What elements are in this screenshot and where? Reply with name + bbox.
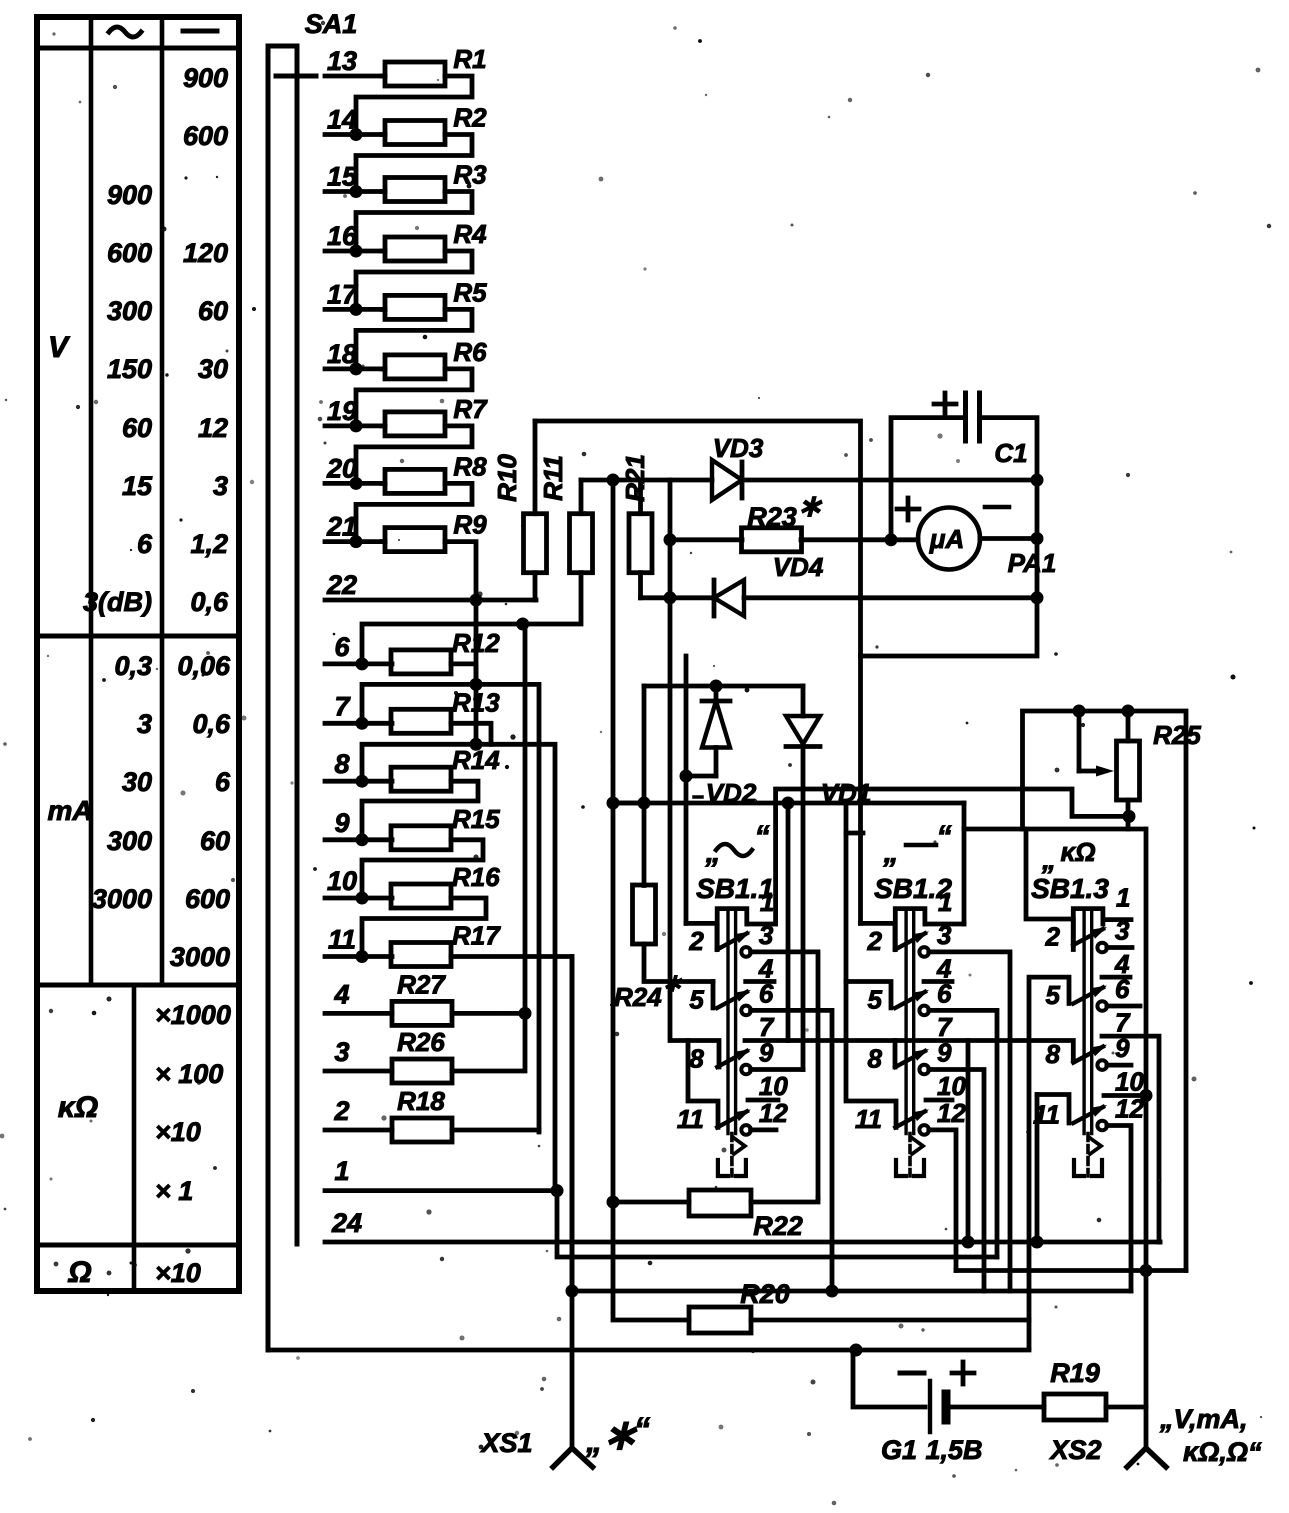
SB1.3 pin9 wire	[1107, 1063, 1131, 1068]
XS1 net label	[585, 1411, 650, 1459]
SA1 contact 11 label	[328, 925, 356, 955]
resistor R6 label	[453, 337, 487, 367]
SB1.1 pin10 bar	[748, 1098, 778, 1103]
R24 bottom wire	[644, 944, 713, 982]
battery G1 plus	[952, 1362, 974, 1384]
table V/mA section line	[37, 634, 239, 639]
SB1.3 button shaft	[1084, 909, 1092, 1134]
SB1.3 button cap	[1073, 909, 1103, 950]
SA1 contact 22 label	[326, 570, 357, 600]
table kOhm ×1000	[155, 1000, 231, 1030]
resistor R16 label	[452, 862, 500, 892]
SA1 contact 18 label	[327, 339, 357, 369]
node 14 wire	[325, 132, 385, 137]
battery G1 short plate	[942, 1394, 951, 1420]
capacitor C1 label	[994, 438, 1027, 468]
switch SB1.3 label	[1031, 873, 1109, 904]
resistor R3 label	[453, 160, 487, 190]
table mA DC 60	[200, 826, 230, 856]
node 21 wire	[325, 539, 385, 544]
resistor R13 label	[452, 687, 500, 717]
svg-text:8: 8	[868, 1044, 883, 1074]
svg-text:4: 4	[758, 953, 774, 983]
SB1.3 pin7 bar	[1102, 1036, 1159, 1242]
R25 top lead	[1126, 711, 1131, 741]
junction R13-return/net22	[470, 738, 483, 751]
SB1.2 pin1 bar	[925, 922, 964, 927]
SB1.2 pin5 branch	[846, 982, 891, 1008]
resistor R10 label	[492, 454, 522, 502]
svg-text:1,2: 1,2	[190, 529, 228, 559]
SB1.1 pin 9 label	[759, 1038, 774, 1068]
SB1.1 pin 12 break circle	[741, 1125, 751, 1135]
SB1.1 button shaft	[728, 909, 736, 1134]
svg-text:2: 2	[867, 926, 883, 956]
svg-text:R23: R23	[747, 502, 797, 532]
potentiometer R25 wiper	[1079, 711, 1114, 777]
resistor R12	[391, 650, 451, 674]
node 3 wire	[325, 1069, 392, 1074]
R11 top lead	[579, 480, 584, 514]
table V AC 600	[107, 238, 152, 268]
svg-text:600: 600	[183, 121, 228, 151]
junction VD4/right	[1031, 591, 1044, 604]
svg-text:300: 300	[107, 296, 152, 326]
svg-text:R17: R17	[452, 921, 501, 951]
SB1.3 pin 3 break circle	[1097, 943, 1107, 953]
R7 left lead	[382, 423, 385, 428]
node 9 junction	[356, 833, 369, 846]
node 11 wire	[325, 954, 392, 959]
SA1 contact 8 label	[334, 749, 349, 779]
SB1.2 pin 4 label	[936, 953, 952, 983]
table outer frame	[37, 17, 239, 1291]
resistor R10	[524, 514, 547, 573]
SB1.3 pin6 wire	[1107, 1004, 1140, 1009]
R19 right wire	[1106, 1405, 1146, 1410]
SB1.2 pin 10 label	[937, 1071, 966, 1101]
table mA AC 30	[122, 767, 152, 797]
label Ohm	[67, 1256, 91, 1289]
connector XS2 label	[1048, 1435, 1101, 1465]
junction R25-bottom	[1123, 810, 1136, 823]
SB1.1 pin6 wire	[751, 1010, 832, 1291]
junction net-R11 start	[607, 797, 620, 810]
svg-text:VD3: VD3	[713, 433, 764, 463]
table V DC 60	[198, 296, 228, 326]
svg-text:120: 120	[183, 238, 228, 268]
table mA/kOhm section line	[37, 983, 239, 988]
svg-text:G1: G1	[881, 1435, 917, 1465]
SB1.3 pin 6 label	[1115, 974, 1130, 1004]
SB1.1 pin 6 label	[759, 978, 774, 1008]
SA1 left bar	[268, 46, 297, 1350]
resistor R1	[385, 62, 445, 86]
svg-text:1: 1	[760, 887, 774, 917]
svg-text:7: 7	[759, 1012, 775, 1042]
node 8 wire	[325, 779, 392, 784]
SB1.2 pin 8 label	[868, 1044, 883, 1074]
table V AC 300	[107, 296, 152, 326]
SA1 contact 19 label	[327, 396, 357, 426]
label mA	[47, 795, 92, 826]
resistor R22	[689, 1190, 751, 1216]
capacitor C1 right wire	[861, 418, 1038, 656]
svg-text:R10: R10	[492, 454, 522, 502]
svg-text:150: 150	[107, 354, 152, 384]
SB1.2 contact 8-9 moving arm	[895, 1049, 929, 1067]
SA1 contact 21 label	[326, 512, 357, 542]
resistor R17	[391, 943, 451, 967]
svg-text:3: 3	[334, 1037, 349, 1067]
wire1 vertical	[557, 1191, 997, 1257]
svg-text:R16: R16	[452, 862, 500, 892]
SB1.3 pin 3 label	[1115, 916, 1130, 946]
meter PA1	[918, 508, 980, 570]
node 16 wire	[325, 249, 385, 254]
R7 return wire	[356, 426, 472, 484]
svg-text:22: 22	[326, 570, 357, 600]
node 17 junction	[350, 303, 363, 316]
table header row line	[37, 46, 239, 51]
svg-text:6: 6	[215, 767, 231, 797]
SB1.2 pin 11 label	[855, 1104, 882, 1134]
node 14 junction	[350, 128, 363, 141]
node 18 wire	[325, 366, 385, 371]
SB1.2 contact 2-3 moving arm	[895, 931, 929, 949]
SB1.1 pin 2 label	[688, 926, 704, 956]
SB1.3 pin4 bar	[1102, 975, 1130, 980]
diode VD4 label	[773, 552, 824, 582]
SB1.2 pin 6 break circle	[919, 1006, 929, 1016]
table kOhm ×10	[155, 1117, 201, 1147]
svg-text:0,06: 0,06	[177, 651, 231, 681]
table Ohm x10	[155, 1258, 201, 1288]
SB1.1 pin12 wire	[751, 1128, 776, 1133]
svg-text:R2: R2	[453, 103, 487, 133]
SA1 contact 17 label	[327, 279, 359, 309]
R26 output wire	[452, 624, 525, 1071]
SB1.3 pin1 bar	[1103, 917, 1131, 922]
R9 return wire	[445, 542, 476, 600]
table mA DC 6	[215, 767, 231, 797]
switch SA1 label	[305, 9, 358, 39]
svg-text:300: 300	[107, 826, 152, 856]
SB1.2 pin9 wire	[929, 1070, 984, 1292]
table V DC 0,6	[190, 587, 229, 617]
SB1.3 contact 5-6 moving arm	[1073, 986, 1107, 1004]
SA1 contact 1 label	[334, 1156, 349, 1186]
capacitor C1 left wire	[891, 418, 966, 540]
SB1.2 pin1 wire up	[962, 803, 967, 924]
resistor R21	[629, 514, 652, 573]
R11 bottom lead	[523, 573, 581, 624]
junction 22/R9	[470, 594, 483, 607]
battery G1 feed	[853, 1350, 925, 1407]
svg-text:0,3: 0,3	[114, 651, 152, 681]
node 10 junction	[356, 892, 369, 905]
SA1 contact 7 label	[334, 691, 351, 721]
SB1.1 pin8 ledge	[670, 600, 719, 1068]
junction rail/G1	[850, 1344, 863, 1357]
table mA DC 600	[185, 884, 230, 914]
svg-text:R8: R8	[453, 451, 487, 481]
SB1.3 pin2 ledge	[1026, 829, 1073, 945]
svg-text:5: 5	[689, 984, 704, 1014]
R18 output wire	[452, 1128, 539, 1133]
SB1.1 pin 11 label	[677, 1104, 704, 1134]
SB1.3 pin 12 break circle	[1097, 1121, 1107, 1131]
SB1.3 pin 9 break circle	[1097, 1060, 1107, 1070]
node 8 junction	[356, 775, 369, 788]
VD2 bottom wire	[686, 774, 716, 779]
SB1.3 pin 4 label	[1114, 949, 1130, 979]
SB1.3 pin12 wire	[1107, 1126, 1131, 1292]
svg-text:κΩ: κΩ	[58, 1091, 98, 1124]
SB1.1 pin 4 label	[758, 953, 774, 983]
svg-text:60: 60	[198, 296, 228, 326]
SB1.2 latch actuator	[896, 1134, 924, 1177]
SB1.2 label quote-minus	[883, 820, 952, 869]
svg-text:2: 2	[1045, 922, 1061, 952]
resistor R26 label	[397, 1027, 445, 1057]
resistor R17 label	[452, 921, 501, 951]
resistor R25	[1117, 741, 1140, 800]
table column divider 2	[160, 17, 165, 985]
node 20 wire	[325, 481, 385, 486]
SB1.3 pin 12 label	[1115, 1094, 1144, 1124]
svg-text:10: 10	[937, 1071, 966, 1101]
svg-text:R25: R25	[1153, 720, 1201, 750]
node 15 wire	[325, 189, 385, 194]
R21 top lead	[638, 480, 643, 514]
SB1.1 pin 8 label	[689, 1044, 704, 1074]
R3 return wire	[356, 192, 472, 252]
XS2 net label	[1159, 1404, 1262, 1467]
wire D	[956, 1268, 1186, 1273]
svg-text:„: „	[705, 836, 721, 869]
resistor R24	[633, 885, 656, 944]
SB1.2 button cap	[895, 909, 925, 950]
resistor R4 label	[453, 219, 487, 249]
resistor R8	[385, 469, 445, 493]
svg-text:3: 3	[137, 709, 152, 739]
SB1.2 pin 3 break circle	[919, 947, 929, 957]
SB1.2 pin8 post	[893, 1041, 898, 1068]
svg-text:„: „	[883, 836, 899, 869]
SB1.1 contact 2-3 moving arm	[717, 931, 751, 949]
node 19 junction	[350, 419, 363, 432]
capacitor C1	[966, 393, 980, 441]
table kOhm column divider	[132, 985, 137, 1291]
node 7 wire	[325, 721, 392, 726]
table mA AC 3000	[92, 884, 152, 914]
junction pin11/wire24	[1031, 1236, 1044, 1249]
table kOhm/Ohm section line	[37, 1243, 239, 1248]
SB1.3 latch actuator	[1074, 1134, 1102, 1177]
svg-text:XS2: XS2	[1048, 1435, 1101, 1465]
R12 return wire	[362, 664, 476, 723]
resistor R18	[392, 1118, 452, 1142]
node 24 wire	[325, 1240, 1160, 1245]
R27 output wire	[452, 1011, 525, 1016]
svg-text:R20: R20	[740, 1279, 790, 1309]
SA1 contact 16 label	[327, 221, 358, 251]
long pin7 wire	[788, 1041, 1073, 1061]
PA1 right wire	[980, 536, 1037, 541]
svg-text:1: 1	[938, 887, 952, 917]
SB1.2 pin 2 label	[867, 926, 883, 956]
node 16 junction	[350, 245, 363, 258]
svg-text:30: 30	[198, 354, 228, 384]
SB1.1 pin 12 label	[759, 1098, 788, 1128]
SB1.3 label quote-kOhm	[1041, 837, 1096, 875]
svg-text:5: 5	[1046, 980, 1061, 1010]
junction PA1/right	[1031, 532, 1044, 545]
R5 left lead	[382, 307, 385, 312]
svg-text:60: 60	[122, 413, 152, 443]
svg-text:6: 6	[137, 529, 153, 559]
junction VD2 top	[710, 680, 723, 693]
net R11-top vertical	[611, 480, 616, 1201]
resistor R20	[689, 1307, 751, 1333]
SA1 contact 6 label	[334, 632, 350, 662]
svg-text:R9: R9	[453, 510, 487, 540]
diode VD2 label	[694, 778, 757, 808]
resistor R8 label	[453, 451, 487, 481]
node 15 junction	[350, 185, 363, 198]
svg-text:600: 600	[185, 884, 230, 914]
junction VD2 bottom	[680, 770, 693, 783]
resistor R9	[385, 528, 445, 552]
R2 return wire	[356, 135, 472, 192]
diode VD3 label	[713, 433, 764, 463]
wire 6 to R11 bottom	[362, 624, 523, 664]
node 7 junction	[356, 717, 369, 730]
SB1.3 pin 2 label	[1045, 922, 1061, 952]
table V DC 1,2	[190, 529, 228, 559]
R22 left wire	[613, 1200, 689, 1205]
SA1 contact 2 label	[333, 1096, 349, 1126]
svg-text:R18: R18	[397, 1086, 445, 1116]
SA1 wiper tick	[276, 74, 316, 79]
SB1.1 pin 9 break circle	[741, 1065, 751, 1075]
node 22 wire	[325, 598, 536, 603]
svg-text:2: 2	[333, 1096, 349, 1126]
node 17 wire	[325, 307, 385, 312]
SB1.2 pin3 wire	[929, 952, 1010, 1291]
diode VD1	[786, 686, 820, 1070]
svg-text:×10: ×10	[155, 1117, 201, 1147]
bridge top wire	[581, 478, 712, 483]
VD2/VD1 top wire	[644, 684, 803, 689]
R22 right wire	[751, 1198, 818, 1202]
SB1.1 pin3 wire	[751, 952, 818, 1198]
SB1.3 contact 8-9 moving arm	[1073, 1045, 1107, 1063]
SB1.1 pin 5 label	[689, 984, 704, 1014]
svg-text:0,6: 0,6	[190, 587, 229, 617]
svg-text:4: 4	[1114, 949, 1130, 979]
SB1.2 pin 9 label	[937, 1038, 952, 1068]
R1 return wire	[356, 76, 472, 135]
table V DC 600	[183, 121, 228, 151]
svg-text:30: 30	[122, 767, 152, 797]
switch SB1.2 label	[874, 873, 952, 904]
junction R25-rail/wiper	[1073, 705, 1086, 718]
resistor R19 label	[1050, 1358, 1100, 1388]
svg-text:„: „	[1041, 844, 1056, 875]
node 2 wire	[325, 1128, 392, 1133]
SB1.1 contact 5-6 moving arm	[717, 990, 751, 1008]
node 6 wire	[325, 662, 392, 667]
bottom rail	[268, 1348, 1029, 1353]
svg-text:0,6: 0,6	[192, 709, 231, 739]
R16 return wire	[362, 898, 486, 957]
resistor R23	[742, 528, 802, 552]
SB1.1 pin2 ledge	[686, 923, 717, 949]
table header AC symbol	[109, 27, 141, 37]
SB1.3 pin 8 label	[1046, 1039, 1061, 1069]
junction XS1/wireC	[566, 1285, 579, 1298]
battery G1 label	[881, 1435, 983, 1465]
battery G1 long plate	[928, 1381, 932, 1432]
SA1 contact 24 label	[331, 1208, 362, 1238]
svg-text:3: 3	[213, 471, 228, 501]
VD3 output wire	[742, 478, 1037, 483]
junction R25-rail/top	[1122, 705, 1135, 718]
resistor R14 label	[452, 745, 500, 775]
SB1.3 pin 1 label	[1116, 883, 1130, 913]
SB1.2 pin7 branch	[966, 1041, 971, 1243]
node 19 wire	[325, 423, 385, 428]
table kOhm × 1	[155, 1176, 193, 1206]
R10 bottom lead	[533, 573, 538, 600]
meter PA1 uA text	[929, 524, 964, 554]
connector XS1 label	[479, 1428, 532, 1458]
resistor R22 label	[753, 1211, 803, 1241]
SB1.3 pin 7 label	[1115, 1008, 1131, 1038]
R24 top wire	[642, 686, 647, 886]
junction wireC/pin6-SB11	[826, 1285, 839, 1298]
resistor R12 label	[452, 628, 500, 658]
SB1.3 pin 5 label	[1046, 980, 1061, 1010]
svg-text:1: 1	[1116, 883, 1130, 913]
node 1 wire	[325, 1188, 557, 1193]
svg-text:6: 6	[334, 632, 350, 662]
R10 top lead	[533, 421, 538, 514]
junction R12-return/net22	[470, 678, 483, 691]
svg-text:5: 5	[868, 984, 883, 1014]
junction pin10/right-vert	[1140, 1089, 1153, 1102]
svg-text:×10: ×10	[155, 1258, 201, 1288]
SB1.2 contact 11-12 moving arm	[895, 1109, 929, 1127]
SB1.2 contact 5-6 moving arm	[895, 990, 929, 1008]
svg-text:15: 15	[122, 471, 153, 501]
R9 left lead	[382, 539, 385, 544]
SB1.3 right vertical	[1144, 829, 1149, 1271]
svg-text:“: “	[634, 1411, 650, 1447]
SB1.3 pin3 wire	[1107, 945, 1132, 950]
R20 right wire	[751, 1318, 1029, 1323]
resistor R5 label	[453, 277, 487, 307]
svg-text:SA1: SA1	[305, 9, 358, 39]
SB1.2 pin 3 label	[937, 920, 952, 950]
SB1.2 pin10 bar	[926, 1098, 952, 1103]
SB1.1 latch actuator	[718, 1134, 746, 1177]
table V AC 900	[107, 180, 152, 210]
connector XS2 fork	[1127, 1448, 1166, 1467]
resistor R27 label	[397, 969, 446, 999]
